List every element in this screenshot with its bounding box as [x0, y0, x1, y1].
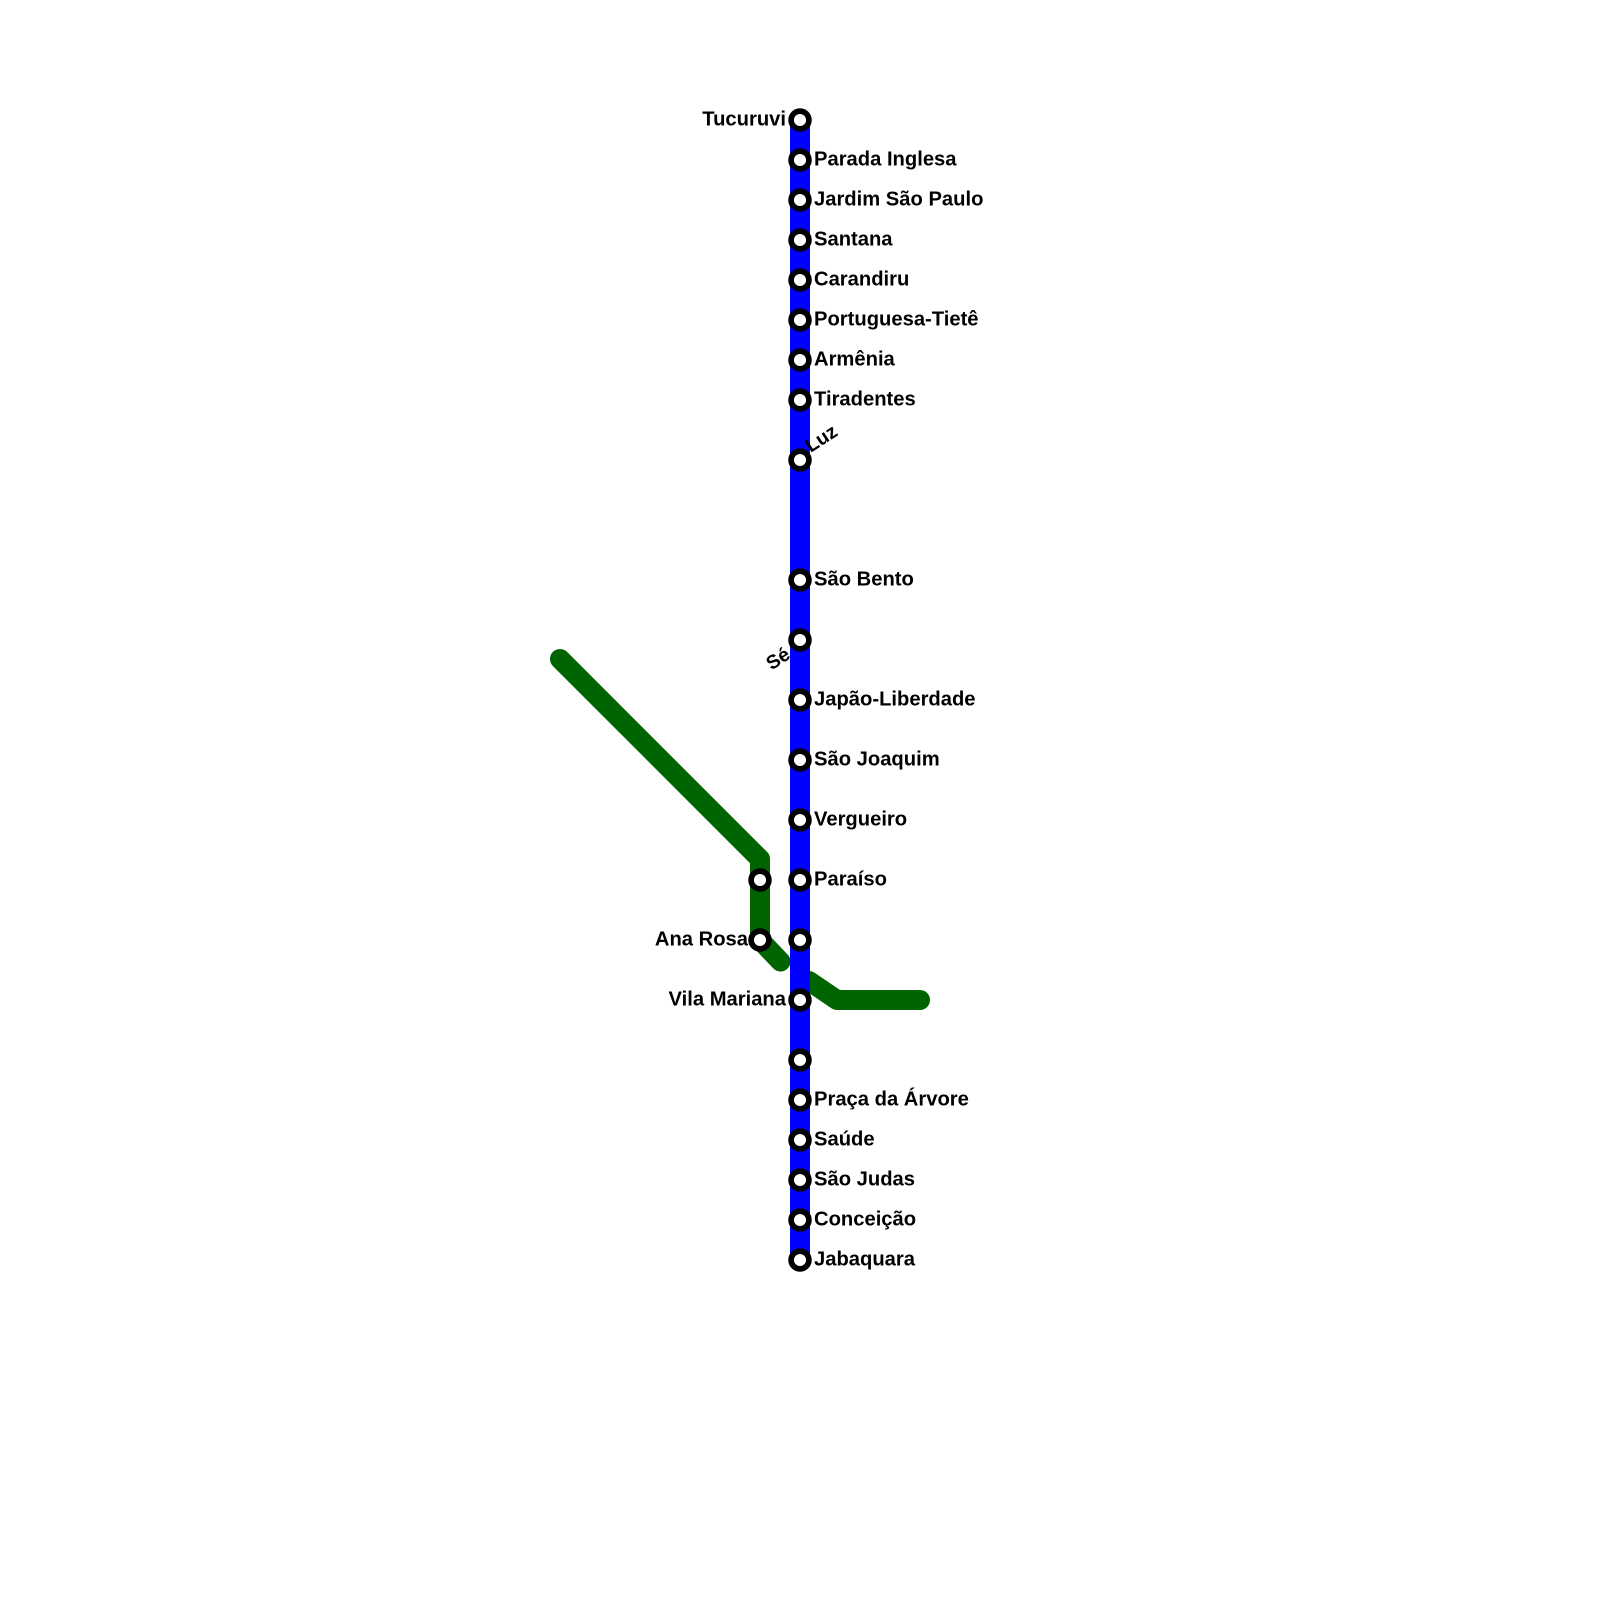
svg-text:Vergueiro: Vergueiro [814, 809, 907, 831]
svg-text:Parada Inglesa: Parada Inglesa [814, 149, 957, 171]
svg-text:Vila Mariana: Vila Mariana [669, 989, 787, 1011]
svg-text:São Joaquim: São Joaquim [814, 749, 940, 771]
svg-text:São Bento: São Bento [814, 569, 914, 591]
svg-text:Japão-Liberdade: Japão-Liberdade [814, 689, 976, 711]
svg-text:Carandiru: Carandiru [814, 269, 909, 291]
svg-text:Paraíso: Paraíso [814, 869, 887, 891]
svg-text:Santana: Santana [814, 229, 893, 251]
svg-text:São Judas: São Judas [814, 1169, 915, 1191]
svg-text:Armênia: Armênia [814, 349, 896, 371]
svg-text:Portuguesa-Tietê: Portuguesa-Tietê [814, 309, 979, 331]
svg-text:Saúde: Saúde [814, 1129, 875, 1151]
svg-text:Tiradentes: Tiradentes [814, 389, 916, 411]
svg-text:Ana Rosa: Ana Rosa [655, 929, 749, 951]
svg-text:Praça da Árvore: Praça da Árvore [814, 1088, 969, 1111]
svg-text:Jardim São Paulo: Jardim São Paulo [814, 189, 983, 211]
svg-text:Tucuruvi: Tucuruvi [702, 109, 786, 131]
svg-text:Jabaquara: Jabaquara [814, 1249, 916, 1271]
svg-text:Conceição: Conceição [814, 1209, 916, 1231]
